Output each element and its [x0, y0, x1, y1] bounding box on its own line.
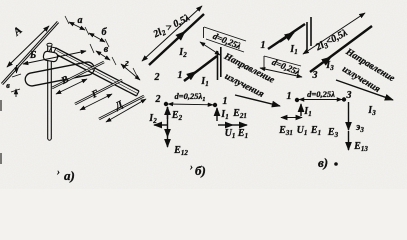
svg-text:3: 3	[346, 90, 352, 101]
svg-text:1: 1	[287, 91, 292, 102]
svg-text:1: 1	[261, 40, 266, 51]
svg-text:d=0,25λ: d=0,25λ	[307, 89, 335, 99]
svg-text:в): в)	[318, 155, 328, 170]
svg-text:›: ›	[190, 162, 193, 172]
svg-text:б): б)	[195, 163, 206, 178]
svg-text:а): а)	[64, 168, 75, 183]
svg-text:в: в	[6, 81, 10, 90]
svg-text:Б: Б	[29, 50, 37, 61]
svg-text:2: 2	[154, 72, 160, 83]
svg-text:г: г	[125, 58, 129, 69]
svg-text:2: 2	[155, 94, 161, 105]
svg-text:1: 1	[223, 96, 228, 107]
svg-text:›: ›	[57, 167, 60, 177]
svg-text:в: в	[104, 44, 109, 55]
svg-text:а: а	[78, 15, 83, 26]
svg-text:3: 3	[312, 70, 318, 81]
svg-text:1: 1	[178, 70, 183, 81]
